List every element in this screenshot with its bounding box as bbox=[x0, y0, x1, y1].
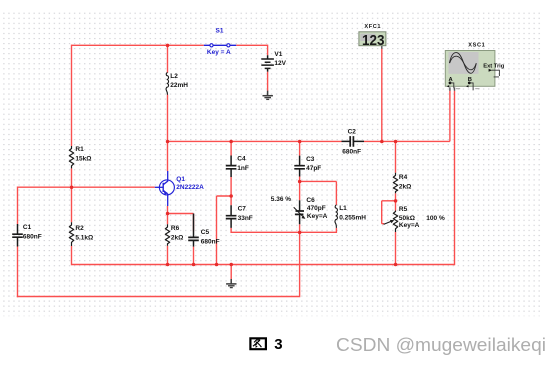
wire C3/C6 column bbox=[299, 141, 301, 232]
svg-text:C1: C1 bbox=[23, 224, 32, 231]
capacitor C5 bbox=[188, 214, 219, 247]
wire left vertical R1/R2 column bbox=[71, 45, 73, 266]
svg-text:5.36 %: 5.36 % bbox=[271, 196, 291, 203]
wire L2/Q1 column bbox=[167, 45, 169, 171]
junction: R1/R2 base node bbox=[70, 186, 74, 190]
ext trig pin bbox=[489, 69, 492, 72]
junction: R5 wiper top node bbox=[394, 199, 398, 203]
svg-text:1nF: 1nF bbox=[237, 165, 249, 172]
svg-text:680nF: 680nF bbox=[342, 148, 361, 155]
wire R4/R5 column bbox=[395, 141, 397, 265]
ground (bottom) bbox=[226, 279, 236, 288]
wire C4 branch to rail bbox=[217, 196, 232, 265]
svg-text:CSDN @mugeweilaikeqi: CSDN @mugeweilaikeqi bbox=[336, 335, 546, 355]
svg-text:680nF: 680nF bbox=[23, 234, 42, 241]
svg-text:C7: C7 bbox=[238, 206, 247, 213]
wire top rail bbox=[72, 44, 268, 46]
resistor R4 bbox=[393, 173, 411, 193]
resistor R2 bbox=[69, 222, 93, 246]
wire C4/C7 column bbox=[230, 141, 336, 232]
oscilloscope XSC1 bbox=[445, 43, 504, 91]
junction: C4-branch on ground rail bbox=[215, 263, 219, 267]
svg-text:470pF: 470pF bbox=[307, 205, 326, 212]
junction: R4 tap on mid rail bbox=[394, 140, 398, 144]
junction: C5 on ground rail bbox=[192, 263, 196, 267]
svg-text:Key = A: Key = A bbox=[207, 49, 231, 56]
junction: R5 on ground rail bbox=[394, 263, 398, 267]
capacitor C3 bbox=[294, 156, 321, 177]
inductor L2 bbox=[166, 72, 188, 94]
junction: emitter node bbox=[166, 212, 170, 216]
svg-text:12V: 12V bbox=[274, 60, 286, 67]
junction: C4/C7 node bbox=[229, 194, 233, 198]
svg-text:50kΩ: 50kΩ bbox=[399, 215, 415, 222]
svg-text:Key=A: Key=A bbox=[399, 222, 420, 229]
scope pin stubs bbox=[450, 87, 455, 90]
junction: collector tap on mid rail bbox=[166, 140, 170, 144]
svg-text:5.1kΩ: 5.1kΩ bbox=[75, 235, 93, 242]
transistor Q1 bbox=[155, 171, 204, 206]
svg-text:2N2222A: 2N2222A bbox=[176, 184, 204, 191]
wire feedback bottom bbox=[17, 232, 300, 297]
svg-text:L1: L1 bbox=[339, 205, 347, 212]
svg-text:15kΩ: 15kΩ bbox=[75, 156, 91, 163]
ground (V1) bbox=[263, 91, 273, 100]
svg-text:L2: L2 bbox=[170, 73, 178, 80]
junction: R6 on ground rail bbox=[166, 263, 170, 267]
capacitor C1 bbox=[12, 224, 42, 247]
svg-text:Key=A: Key=A bbox=[307, 213, 328, 220]
svg-text:S1: S1 bbox=[216, 28, 224, 35]
junction: ground tap on ground rail bbox=[230, 263, 234, 267]
svg-text:680nF: 680nF bbox=[201, 238, 220, 245]
wire far-left C1 column bbox=[17, 187, 19, 298]
svg-text:2kΩ: 2kΩ bbox=[171, 235, 183, 242]
wire R5 wiper loop bbox=[382, 201, 396, 224]
XFC1 pin stub bbox=[381, 46, 383, 49]
junction: tank bottom node bbox=[298, 231, 302, 235]
svg-text:123: 123 bbox=[362, 33, 385, 49]
svg-text:R5: R5 bbox=[399, 206, 408, 213]
svg-text:V1: V1 bbox=[274, 51, 282, 58]
svg-text:R2: R2 bbox=[75, 225, 84, 232]
svg-text:Q1: Q1 bbox=[176, 176, 185, 183]
capacitor C2 (horizontal) bbox=[342, 129, 365, 156]
svg-text:Ext Trig: Ext Trig bbox=[483, 63, 504, 69]
junction: C3 tap on mid rail bbox=[298, 140, 302, 144]
wire V1 leads bbox=[267, 45, 269, 91]
svg-text:XFC1: XFC1 bbox=[364, 24, 381, 30]
resistor R6 bbox=[165, 224, 183, 246]
svg-text:2kΩ: 2kΩ bbox=[399, 183, 411, 190]
svg-text:47pF: 47pF bbox=[306, 165, 321, 172]
junction: C4 tap on mid rail bbox=[229, 140, 233, 144]
frequency counter XFC1 bbox=[359, 24, 386, 49]
wire ground branch bbox=[230, 265, 232, 280]
svg-text:XSC1: XSC1 bbox=[468, 43, 485, 49]
svg-text:C4: C4 bbox=[237, 155, 246, 162]
wire mid rail bbox=[168, 140, 450, 142]
svg-text:100 %: 100 % bbox=[426, 215, 445, 222]
svg-text:R4: R4 bbox=[399, 174, 408, 181]
svg-text:C5: C5 bbox=[201, 229, 210, 236]
svg-text:R6: R6 bbox=[171, 225, 180, 232]
wire base horizontal bbox=[18, 186, 155, 188]
switch S1 bbox=[204, 28, 236, 56]
junction: C3 bottom node bbox=[298, 180, 302, 184]
svg-text:C3: C3 bbox=[306, 156, 315, 163]
potentiometer R5 bbox=[384, 206, 420, 232]
wire C3 to L1 link bbox=[300, 181, 337, 233]
svg-text:0.255mH: 0.255mH bbox=[339, 214, 366, 221]
svg-text:3: 3 bbox=[274, 336, 282, 353]
svg-text:C2: C2 bbox=[348, 129, 357, 136]
capacitor C7 bbox=[226, 205, 253, 228]
wire scope B drop bbox=[454, 91, 456, 266]
wire emitter to C5 bbox=[168, 214, 194, 266]
svg-text:C6: C6 bbox=[306, 197, 315, 204]
variable capacitor C6 bbox=[294, 197, 328, 224]
inductor L1 bbox=[335, 205, 366, 228]
svg-text:22mH: 22mH bbox=[170, 82, 188, 89]
resistor R1 bbox=[69, 146, 91, 168]
junction: XFC1 tap on mid rail bbox=[380, 140, 384, 144]
svg-text:R1: R1 bbox=[75, 146, 84, 153]
wire XFC1 drop bbox=[381, 49, 383, 142]
battery V1 bbox=[261, 55, 274, 71]
capacitor C4 bbox=[226, 155, 249, 177]
wire emitter column bbox=[167, 206, 169, 265]
wire bottom rail bbox=[72, 264, 455, 266]
wire scope A drop bbox=[449, 91, 451, 142]
svg-text:33nF: 33nF bbox=[238, 215, 253, 222]
caption 图 3 bbox=[250, 336, 282, 353]
junction: L2 tap on top rail bbox=[166, 44, 170, 48]
